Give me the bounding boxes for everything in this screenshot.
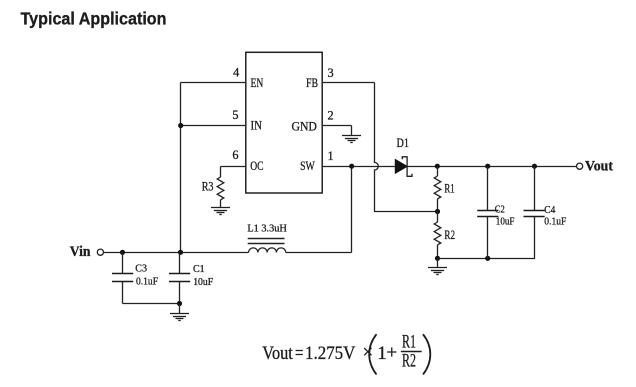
pin 1 (SW) wire [322,166,351,168]
capacitor C1 bottom lead [179,282,181,304]
junction: R1 top [435,164,440,169]
svg-text:5: 5 [232,108,238,122]
wire: Vin rail (left of L1) [104,252,249,254]
svg-text:Vout: Vout [585,159,613,175]
svg-text:R2: R2 [402,351,416,372]
inductor L1 core bars [248,238,285,240]
svg-text:2: 2 [328,109,334,123]
junction: C2 bottom [485,256,490,261]
capacitor C4 plates [524,210,545,212]
ground at GND pin [342,136,361,143]
resistor R2 top lead [437,212,439,223]
formula big left parenthesis [369,334,376,374]
pin 5 (IN) wire [181,125,246,127]
svg-text:R3: R3 [202,180,214,194]
resistor R1 top lead [437,167,439,177]
ground under C1 [170,314,189,321]
diode D1 schottky cathode bar [402,157,412,177]
svg-text:OC: OC [250,159,263,173]
resistor R2 zigzag [434,222,441,245]
svg-text:1: 1 [328,149,334,163]
capacitor C3 bottom lead [122,282,124,304]
svg-text:0.1uF: 0.1uF [136,277,158,288]
svg-text:3: 3 [328,66,334,80]
resistor R3 zigzag [217,177,224,200]
Vout terminal [577,163,583,169]
wire: EN/IN tie vertical down to Vin rail [180,83,182,253]
wire: GND pin drop [351,126,353,136]
pin 6 (OC) wire [221,166,246,168]
wire: SW node to D1 anode [352,166,396,168]
resistor R3 top lead [220,167,222,178]
junction: FB / R1 / R2 [435,209,440,214]
inductor L1 coil [249,248,286,253]
junction: C4 top [532,164,537,169]
svg-text:R2: R2 [444,228,455,242]
junction: C1 top / EN-IN tie [178,250,183,255]
svg-text:FB: FB [306,76,318,90]
pin 4 (EN) wire [181,82,246,84]
svg-text:IN: IN [251,119,263,133]
resistor R2 bottom lead [437,245,439,259]
ground under R3 [211,208,230,215]
pin 2 (GND) wire [322,125,351,127]
Vin terminal [97,249,103,255]
svg-text:10uF: 10uF [496,216,515,227]
junction: SW node [349,164,354,169]
resistor R3 bottom lead [220,200,222,208]
svg-text:×: × [363,342,374,363]
svg-text:+: + [386,342,397,363]
svg-text:EN: EN [251,76,264,90]
capacitor C2 top lead [487,167,489,211]
svg-text:C4: C4 [544,205,556,216]
resistor R1 bottom lead [437,199,439,212]
capacitor C4 top lead [534,167,536,211]
formula fraction bar [401,351,422,353]
capacitor C3 top lead [122,253,124,274]
svg-text:1.275V: 1.275V [305,343,356,364]
lead into ground under R2 [437,259,439,268]
wire: D1 cathode to Vout [407,166,576,168]
resistor R1 zigzag [434,176,441,199]
capacitor C2 plates [477,210,498,212]
junction: C1 bottom [177,301,182,306]
wire: C3/C1 bottom rail [123,303,180,305]
wire: SW node vertical [351,167,353,253]
junction: R2 bottom [435,256,440,261]
svg-text:Vin: Vin [70,244,91,260]
capacitor C2 bottom lead [487,217,489,259]
formula big right parenthesis [423,334,430,374]
capacitor C1 plates [169,273,190,275]
formula: Vout = 1.275V x (1 + R1/R2) [262,331,430,374]
svg-text:0.1uF: 0.1uF [544,216,566,227]
pin 3 (FB) wire [322,82,374,84]
svg-text:4: 4 [233,66,239,80]
svg-text:10uF: 10uF [193,277,213,288]
svg-text:Typical Application: Typical Application [21,9,167,29]
diode D1 triangle [395,160,407,174]
svg-text:C3: C3 [135,264,147,275]
IC U1 body [246,52,322,193]
svg-text:D1: D1 [397,136,410,150]
svg-text:=: = [295,343,303,364]
svg-text:R1: R1 [402,331,416,352]
svg-text:L1 3.3uH: L1 3.3uH [247,224,287,235]
capacitor C3 plates [112,273,133,275]
junction: C2 top [485,164,490,169]
wire: bottom ground rail to C4 [438,217,535,259]
wire: L1 to SW node [286,252,352,254]
svg-text:Vout: Vout [262,343,293,364]
svg-text:GND: GND [292,120,317,134]
svg-text:R1: R1 [444,181,454,195]
ground under R2 [428,268,447,275]
svg-text:C1: C1 [193,264,205,275]
junction: IN tap [178,123,183,128]
svg-text:6: 6 [232,148,238,162]
lead into ground under C1 [179,304,181,314]
svg-text:SW: SW [300,159,315,173]
svg-text:C2: C2 [495,205,505,216]
junction: C3 top [120,250,125,255]
capacitor C1 top lead [179,253,181,274]
net FB: vertical with hop over SW wire, then across to divider [375,83,438,212]
